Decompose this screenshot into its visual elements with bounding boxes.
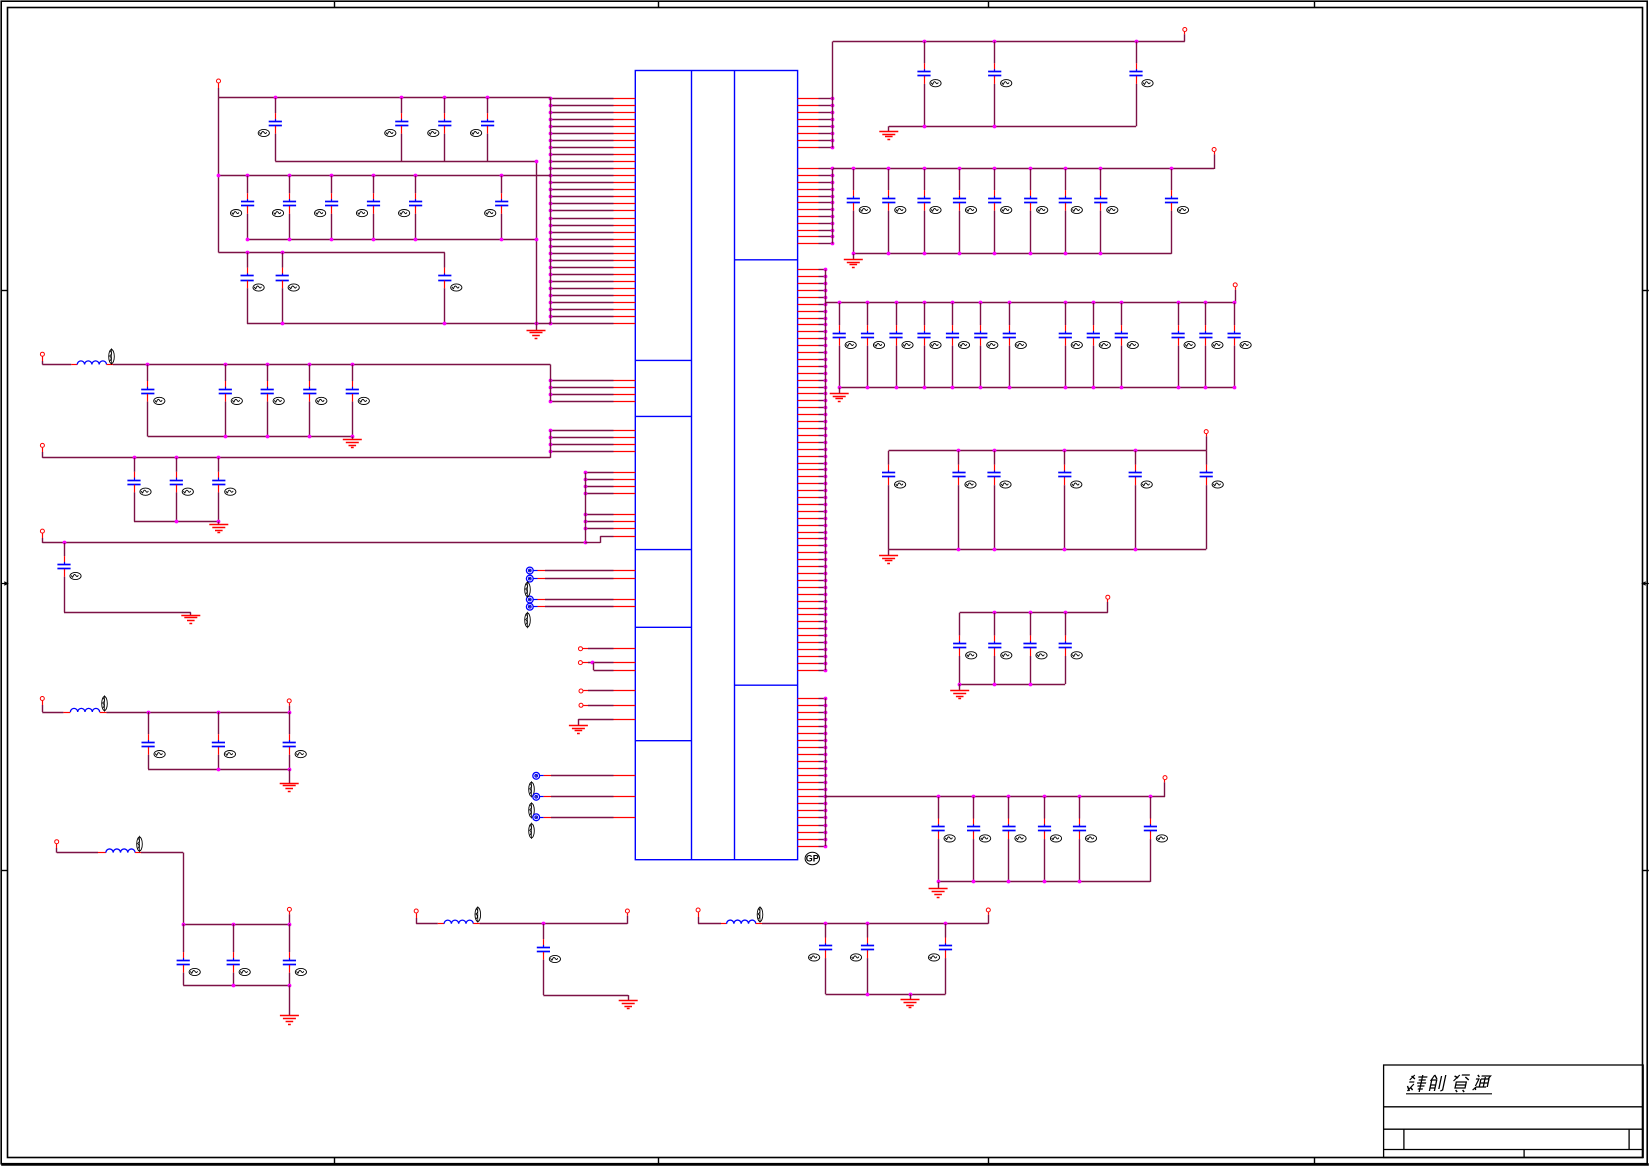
svg-text:GP: GP — [806, 854, 819, 864]
